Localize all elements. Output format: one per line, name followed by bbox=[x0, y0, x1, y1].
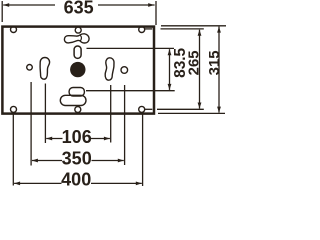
svg-text:635: 635 bbox=[64, 0, 94, 18]
svg-text:265: 265 bbox=[187, 50, 203, 75]
svg-text:106: 106 bbox=[62, 127, 92, 147]
svg-text:350: 350 bbox=[62, 149, 92, 169]
svg-text:315: 315 bbox=[207, 50, 223, 75]
svg-text:400: 400 bbox=[61, 170, 91, 190]
